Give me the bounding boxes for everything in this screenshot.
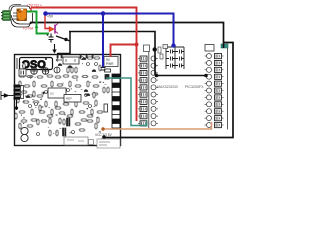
node bus mid left <box>155 74 159 78</box>
node orange at board <box>101 127 104 130</box>
svg-text:U2: U2 <box>50 92 54 96</box>
trimmer capacitor VR3 <box>54 67 60 73</box>
wire black bus 2 <box>69 32 155 76</box>
teal part top right <box>221 44 228 48</box>
wire loop E <box>13 13 17 19</box>
svg-text:PIC3200FX: PIC3200FX <box>185 85 204 89</box>
wire loop B <box>11 13 33 24</box>
IC U5 box <box>63 57 79 64</box>
board silkscreen specks <box>19 62 106 143</box>
node bus mid right <box>204 74 208 78</box>
wire loop D <box>9 5 21 11</box>
wire black U shape <box>57 32 70 54</box>
IC U4 PIC <box>205 46 228 130</box>
green arrowhead <box>35 25 39 28</box>
terminal block J1 green <box>1 11 11 21</box>
wire loop A <box>11 6 30 11</box>
wire teal <box>106 78 147 126</box>
left edge probe connector <box>14 85 24 99</box>
LED D1 <box>45 24 58 34</box>
label box bottom right of board <box>97 139 120 148</box>
wire red stub into module <box>30 8 32 11</box>
probe arrow outside board <box>1 91 14 100</box>
svg-text:TO NA: TO NA <box>23 27 35 31</box>
wire black from LED <box>56 36 70 41</box>
trimmer capacitor VR1 <box>31 68 38 75</box>
capacitor group C1-C6 grid <box>166 47 184 69</box>
small box top of cap grid <box>163 45 168 49</box>
node blue bottom <box>171 43 175 47</box>
capacitor C9 polarized <box>47 34 54 43</box>
small parts near header <box>19 59 111 113</box>
connector pin arrow down <box>52 44 56 54</box>
node ground at board <box>102 135 106 139</box>
wire black ground loop <box>30 23 233 138</box>
wire blue 5V <box>45 14 174 68</box>
IC U8 box <box>64 95 81 103</box>
wire red to LED <box>45 15 48 29</box>
board scatter components <box>15 56 109 137</box>
wire orange VCC <box>103 122 212 129</box>
node blue mid <box>101 11 106 16</box>
PCB board DSO138 outline <box>15 55 121 146</box>
power box 9V input <box>104 57 118 67</box>
wire loop C <box>11 19 30 27</box>
DSO logo <box>17 58 53 71</box>
wire black mid bus <box>155 75 206 77</box>
pin header ladder right edge <box>112 74 120 128</box>
svg-text:PWR: PWR <box>106 62 114 66</box>
blue connector at board <box>101 68 106 71</box>
node board gnd dot <box>15 106 18 109</box>
svg-text:MAX3232CB: MAX3232CB <box>157 85 178 89</box>
svg-text:+5V: +5V <box>47 15 54 19</box>
IC U2 box <box>41 88 66 98</box>
trimmer capacitor VR2 <box>42 68 49 75</box>
svg-text:+5V TO +: +5V TO + <box>27 4 42 8</box>
node blue left <box>43 11 48 16</box>
wire green <box>27 12 49 34</box>
small box top right IC <box>205 45 214 52</box>
wire board internal <box>16 100 18 110</box>
BNC connector rings <box>21 127 28 141</box>
node bus2 top <box>153 47 157 51</box>
IC U1 MAX3232 <box>138 45 163 128</box>
node black junction <box>64 38 67 41</box>
svg-text:REF: REF <box>66 97 72 101</box>
header filled pins <box>112 74 120 124</box>
wire red power <box>31 8 137 122</box>
module U3 orange <box>17 9 27 21</box>
node red junction <box>135 43 139 47</box>
LCD connector label box <box>64 137 94 145</box>
